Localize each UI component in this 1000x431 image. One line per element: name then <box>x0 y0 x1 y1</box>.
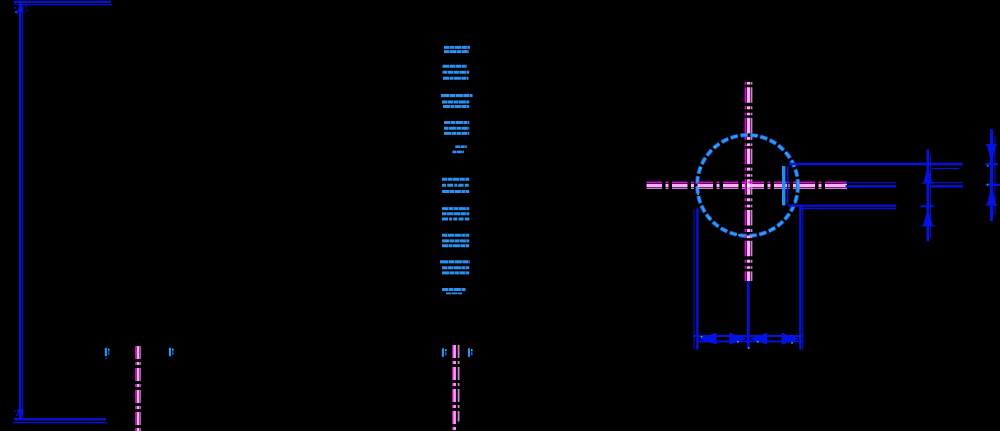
shaft circle dark fringe ring <box>697 135 798 236</box>
center cross sparkle <box>747 184 749 186</box>
bottom dim: right extension thick <box>799 206 801 350</box>
note text block B3 with arrow row <box>441 96 473 107</box>
small tick symbol T4 <box>468 348 473 356</box>
note text block B1 <box>444 47 470 51</box>
VD2 tick lower <box>985 184 1000 186</box>
VD2 arrow lower base wing <box>986 204 998 206</box>
note text block B7 <box>442 209 469 219</box>
dimension arrow top-left pointing up <box>17 2 24 13</box>
keyway bottom extension line <box>789 205 897 207</box>
green specks in note column <box>447 72 463 263</box>
note text block B6 <box>442 179 469 191</box>
vertical centerline magenta edge <box>744 82 746 281</box>
keyway bottom edge (bright blue) <box>782 166 785 205</box>
left view: top edge line (thin) <box>17 4 113 6</box>
note text block B8 <box>442 235 469 246</box>
bottom dim arrow left-pointing 2 <box>749 333 767 345</box>
left view: bottom edge line (thick) <box>15 418 107 420</box>
VD2 arrow upper (pointing down) <box>987 145 996 164</box>
bottom dim: right extension thin <box>802 207 804 350</box>
vertical centerline violet edge <box>751 82 753 281</box>
middle extension line thick <box>846 185 963 187</box>
short tick at dim line <box>921 205 934 207</box>
bottom dim arrow left-pointing 1 <box>699 333 717 345</box>
keyway extension vertical (dark blue) <box>787 166 789 205</box>
second bottom extension line <box>801 207 897 209</box>
tick marks near top-left corner <box>14 3 28 15</box>
VD1 arrow lower base wing <box>922 225 935 227</box>
VD1 arrow upper base wing <box>922 182 935 184</box>
bottom dim arrow right-pointing 1 <box>729 333 747 345</box>
middle extension line thin <box>846 182 963 184</box>
VD1 arrow upper (pointing up) <box>923 165 932 183</box>
horizontal centerline magenta edge <box>647 181 847 183</box>
tick marks near bottom-left corner <box>14 410 18 419</box>
horizontal centerline bright core <box>647 184 847 187</box>
VD2 companion thin line <box>994 136 996 215</box>
small tick symbol T2 <box>169 348 174 356</box>
small tick symbol T3 <box>442 348 447 356</box>
bottom centerline CL1 magenta edge <box>135 346 137 431</box>
keyway top extension line <box>789 163 963 166</box>
cyan flecks on circle <box>697 135 796 236</box>
thin extension line below top <box>932 168 959 170</box>
VD1 companion thin line <box>930 155 932 238</box>
note text block B2 <box>443 66 470 78</box>
bottom centerline CL2 violet edge <box>458 345 460 422</box>
VD1 arrow lower (pointing up) <box>923 208 933 225</box>
small tick symbol T1 <box>105 348 110 360</box>
green speck top-left <box>15 11 16 12</box>
vertical centerline bright core <box>747 82 751 281</box>
green specks right dimension <box>987 165 989 167</box>
bottom dim: center extension (blue part of centerline) <box>747 281 750 348</box>
note text block B5 (small) <box>452 147 466 152</box>
bottom centerline CL1 violet edge <box>140 346 142 431</box>
left view: bottom edge line (thin) <box>13 422 107 424</box>
vertical dimension line VD2 <box>990 129 993 221</box>
bottom dim arrow right-pointing 2 <box>782 333 800 345</box>
left view: left vertical edge (thin) <box>22 5 24 418</box>
bottom dim: left extension thick <box>696 208 698 349</box>
cyan specks bottom dimension <box>701 336 793 349</box>
note text block B10 <box>442 290 466 294</box>
left view: left vertical edge (thick) <box>19 2 21 420</box>
note text block B9 with arrow row <box>440 262 470 273</box>
VD2 arrow lower (pointing up) <box>987 186 996 205</box>
left view: top edge line (thick) <box>14 1 111 3</box>
bottom dimension line upper <box>693 335 802 337</box>
bottom dimension line lower <box>697 340 803 342</box>
bottom centerline CL2 bright core <box>453 345 456 431</box>
horizontal centerline violet edge <box>647 187 847 189</box>
bottom centerline CL2 magenta edge <box>452 345 454 431</box>
VD2 tick upper <box>985 163 998 165</box>
vertical dimension line VD1 <box>927 149 930 241</box>
shaft circle (dashed, bright blue) <box>697 135 798 236</box>
note text block B4 <box>444 123 469 134</box>
bottom centerline CL1 bright core <box>137 346 140 431</box>
VD2 arrow upper base wing <box>986 144 998 146</box>
bottom dim: left extension thin <box>693 209 695 350</box>
dimension arrow bottom-left pointing down <box>17 409 24 420</box>
horizontal centerline final dash <box>841 182 848 188</box>
